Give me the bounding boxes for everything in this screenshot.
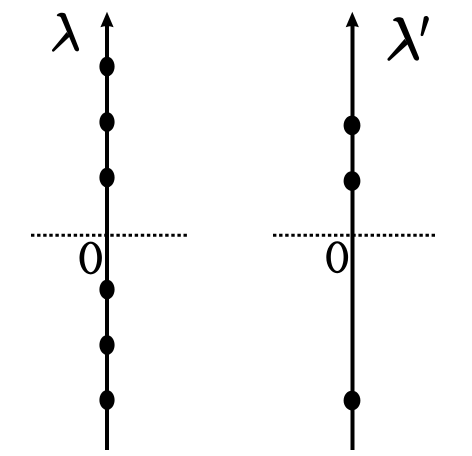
label 0 left axis [79,242,101,275]
dot left axis -1 [99,280,114,300]
label lambda-prime (right axis) [387,17,419,61]
arrowhead right axis [346,12,359,27]
label lambda (left axis) [57,13,79,52]
label lambda left leg stroke [52,32,70,52]
dot left axis +1 [99,168,114,188]
dot left axis +3 [99,57,114,77]
dotted zero line left [31,234,189,237]
axis line lambda-prime (right vertical axis shaft) [351,22,355,450]
dot right axis +1 [344,171,361,191]
axis line lambda (left vertical axis shaft) [105,22,109,450]
dot left axis +2 [99,112,114,132]
dot left axis -2 [99,335,114,355]
label prime mark of lambda-prime [421,16,429,36]
dot right axis -3 [344,391,361,411]
dot left axis -3 [99,390,114,410]
dotted zero line right [273,234,436,237]
label 0 right axis [326,241,348,273]
arrowhead left axis [100,12,113,27]
dot right axis +2 [344,116,361,136]
